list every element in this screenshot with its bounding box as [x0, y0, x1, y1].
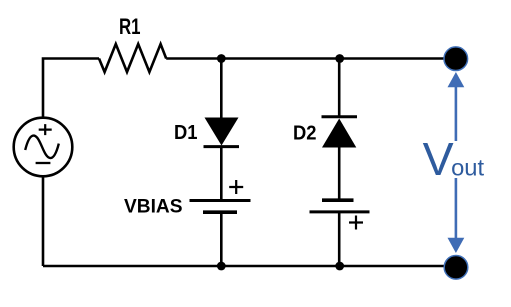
svg-text:D2: D2 — [293, 123, 317, 145]
svg-text:Vout: Vout — [423, 133, 485, 185]
wire top from resistor to output terminal — [166, 57, 455, 60]
svg-text:R1: R1 — [119, 14, 141, 39]
wire AC source bottom to bottom rail — [42, 176, 45, 266]
battery V2 — [310, 200, 370, 229]
diode D1 — [204, 118, 240, 147]
AC source V1 — [14, 118, 73, 177]
arrow up to top terminal — [448, 72, 465, 141]
wire D2 branch top — [338, 59, 341, 117]
terminal output bottom — [444, 255, 468, 279]
node junction bottom D2 — [335, 262, 344, 271]
svg-text:D1: D1 — [174, 122, 198, 144]
battery VBIAS — [190, 180, 251, 212]
arrow down to bottom terminal — [448, 178, 465, 253]
diode D2 — [322, 117, 358, 148]
wire left vertical + top-left corner to resistor — [43, 59, 99, 118]
wire D1 branch top — [220, 59, 223, 119]
wire D2 to battery — [338, 148, 341, 201]
terminal output top — [444, 47, 468, 71]
node junction bottom D1 — [217, 262, 226, 271]
wire battery V2 to bottom rail — [338, 212, 341, 266]
node junction top D2 — [335, 54, 344, 63]
wire bottom rail — [43, 265, 455, 268]
wire VBIAS to bottom rail — [220, 212, 223, 266]
svg-text:VBIAS: VBIAS — [124, 197, 183, 218]
wire D1 to battery — [220, 147, 223, 200]
node junction top D1 — [217, 54, 226, 63]
resistor R1 — [99, 44, 166, 72]
